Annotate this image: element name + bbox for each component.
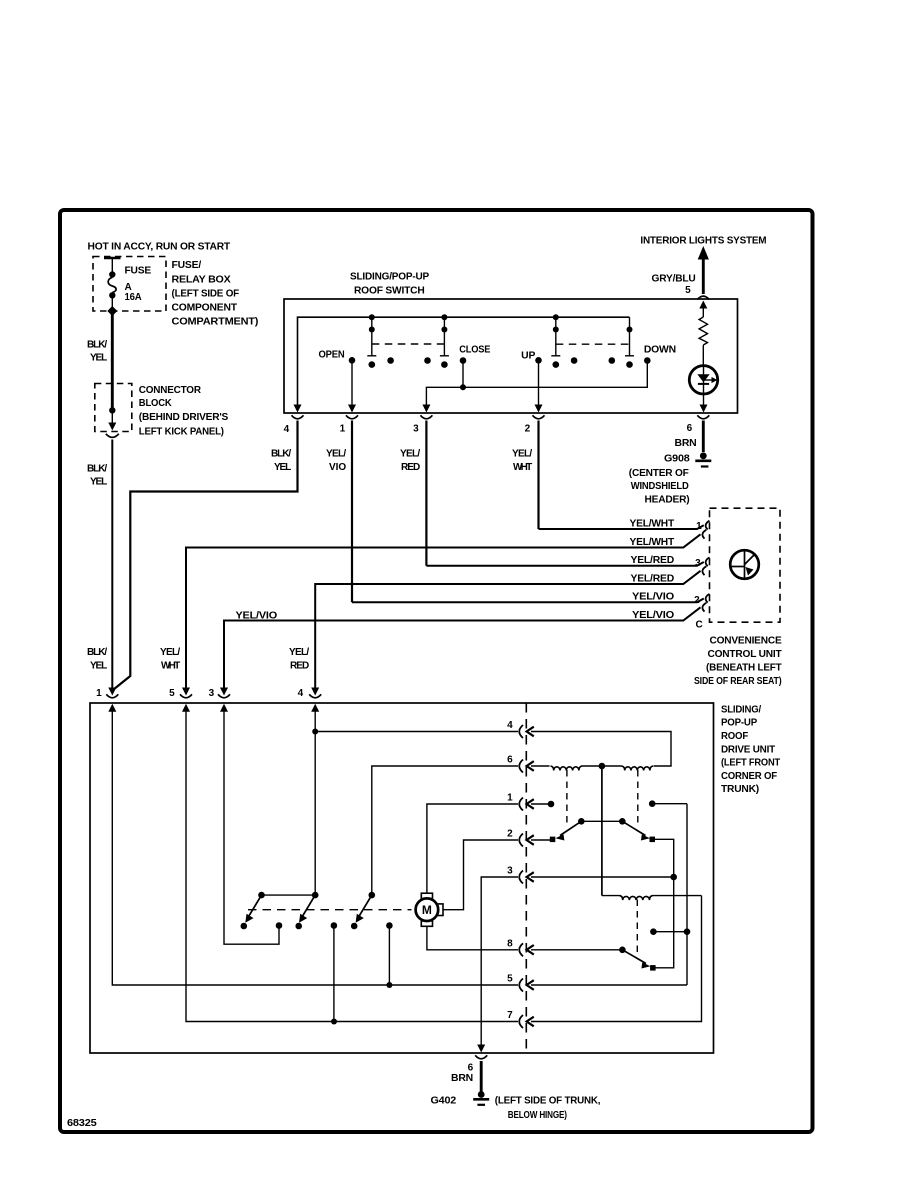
border frame — [60, 210, 813, 1132]
relay coil L1 — [531, 766, 602, 771]
svg-text:WHT: WHT — [513, 462, 532, 473]
svg-text:YEL/VIO: YEL/VIO — [632, 592, 674, 603]
wire BRN to ground — [480, 1061, 483, 1092]
fuse/relay box (dashed) — [93, 257, 166, 312]
svg-text:CORNER OF: CORNER OF — [721, 771, 777, 782]
svg-text:3: 3 — [413, 424, 419, 435]
svg-text:YEL/: YEL/ — [512, 449, 532, 460]
svg-text:BLK/: BLK/ — [87, 647, 107, 658]
arrow to interior lights system — [698, 246, 709, 260]
svg-text:YEL: YEL — [90, 661, 107, 672]
resistor — [699, 317, 707, 345]
connector pin 2 of switch — [533, 415, 545, 419]
wire BLK/YEL fuse to connector block — [111, 311, 114, 410]
svg-text:BRN: BRN — [675, 438, 697, 449]
label CONVENIENCE CONTROL UNIT (BENEATH LEFT SIDE OF REAR SEAT) — [694, 635, 782, 687]
connector symbol below block — [106, 434, 119, 438]
svg-text:DOWN: DOWN — [644, 345, 676, 356]
limit switch B — [295, 892, 337, 1022]
svg-text:YEL/VIO: YEL/VIO — [236, 611, 278, 622]
svg-text:3: 3 — [209, 688, 215, 699]
node DOWN contact — [644, 357, 651, 364]
svg-text:CLOSE: CLOSE — [459, 345, 490, 356]
wire YEL/WHT switch pin 2 down — [537, 421, 539, 530]
connector drive pin 1 — [96, 688, 118, 712]
drive unit box — [90, 703, 714, 1053]
LED indicator — [689, 366, 717, 394]
wire YEL/VIO switch pin 1 down — [351, 421, 353, 603]
connector pin 6 of switch — [697, 415, 709, 419]
label FUSE/RELAY BOX (LEFT SIDE OF COMPONENT COMPARTMENT) — [172, 260, 259, 328]
wire motor right to pin 2 line — [443, 840, 518, 910]
wire BRN pin 6 to ground — [702, 421, 705, 453]
relay contact K2 — [619, 947, 655, 971]
svg-text:RED: RED — [401, 462, 420, 473]
relay contact K1 — [550, 818, 655, 842]
svg-text:CONTROL UNIT: CONTROL UNIT — [708, 649, 782, 660]
svg-text:5: 5 — [507, 974, 513, 985]
svg-text:6: 6 — [687, 423, 693, 434]
svg-text:1: 1 — [340, 424, 346, 435]
wire motor top to pin 1 line — [427, 804, 518, 893]
connector bottom pin 6 — [475, 1055, 487, 1059]
svg-text:BLK/: BLK/ — [271, 449, 291, 460]
svg-text:BELOW HINGE): BELOW HINGE) — [508, 1110, 567, 1121]
svg-text:BRN: BRN — [451, 1073, 473, 1084]
svg-text:YEL/: YEL/ — [289, 647, 309, 658]
svg-text:SLIDING/: SLIDING/ — [721, 704, 761, 715]
junction — [331, 1019, 337, 1025]
connector drive pin 4 — [298, 688, 322, 712]
wire pin 3 line to bottom pin 6 — [481, 877, 518, 1045]
wire YEL/RED switch pin3 to control unit pin 3 — [426, 562, 703, 566]
svg-text:(CENTER OF: (CENTER OF — [629, 468, 689, 479]
wire YEL/WHT switch pin2 to control unit pin 1 — [539, 525, 704, 529]
svg-text:(BEHIND DRIVER'S: (BEHIND DRIVER'S — [139, 412, 229, 423]
svg-text:YEL: YEL — [90, 477, 107, 488]
connector arc pin 1 — [706, 521, 710, 530]
actuation dashes coil L2 — [637, 770, 639, 826]
wire coil L3 to pin 7 line — [531, 896, 702, 1022]
svg-text:2: 2 — [694, 595, 700, 606]
dead contacts group 2 — [571, 357, 578, 364]
junction — [386, 982, 392, 988]
limit switch C — [351, 892, 393, 985]
switch box — [284, 299, 738, 413]
svg-text:2: 2 — [507, 829, 513, 840]
node CLOSE contact — [460, 357, 467, 364]
wire pin 3 internal to limit switch A contact — [224, 711, 279, 944]
svg-text:YEL: YEL — [274, 462, 291, 473]
alternate contact stub lower — [650, 928, 690, 935]
connector block (dashed) — [95, 384, 132, 432]
svg-text:5: 5 — [169, 688, 175, 699]
wire pin 4 right loop — [531, 732, 671, 767]
wire BLK/YEL switch pin 4 to drive unit pin 1 — [114, 421, 298, 690]
svg-text:(LEFT SIDE OF TRUNK,: (LEFT SIDE OF TRUNK, — [495, 1096, 601, 1107]
wire pin 5 internal to pin 7 line — [186, 711, 518, 1022]
svg-text:3: 3 — [695, 558, 701, 569]
svg-text:BLK/: BLK/ — [87, 340, 107, 351]
svg-text:FUSE/: FUSE/ — [172, 260, 202, 271]
label (LEFT SIDE OF TRUNK, BELOW HINGE) — [495, 1096, 601, 1122]
actuation dashes coil L3 — [636, 900, 638, 954]
svg-text:8: 8 — [507, 938, 513, 949]
connector arc pin C — [702, 603, 706, 612]
internal connector dashed line — [525, 703, 527, 1053]
internal connector pin 6 — [507, 755, 534, 773]
label (CENTER OF WINDSHIELD HEADER) — [629, 468, 690, 506]
svg-text:RELAY BOX: RELAY BOX — [172, 274, 232, 285]
svg-text:4: 4 — [507, 720, 513, 731]
wire pin 1 internal to pin 5 line — [112, 711, 518, 985]
svg-text:INTERIOR LIGHTS SYSTEM: INTERIOR LIGHTS SYSTEM — [640, 235, 766, 246]
connector pin 4 of switch — [292, 415, 304, 419]
internal connector pin 7 — [507, 1010, 534, 1028]
switch contact 1 (OPEN side) — [367, 314, 376, 368]
node in connector block — [109, 407, 115, 413]
connector arc pin 3 — [706, 557, 710, 566]
solid state symbol U1 — [730, 550, 759, 579]
wire YEL/RED drive unit pin 4 to control unit — [315, 571, 700, 688]
svg-text:YEL: YEL — [90, 353, 107, 364]
svg-text:POP-UP: POP-UP — [721, 718, 758, 729]
svg-text:G402: G402 — [431, 1096, 457, 1107]
svg-text:5: 5 — [685, 285, 691, 296]
svg-text:G908: G908 — [664, 454, 690, 465]
ground G908 — [695, 452, 711, 466]
connector pin 5 — [697, 296, 709, 300]
connector arc — [702, 566, 706, 575]
wire pin 6 line to limit switch C — [372, 766, 518, 895]
svg-text:YEL/: YEL/ — [326, 449, 346, 460]
alternate contact stub upper — [649, 800, 687, 985]
svg-text:C: C — [696, 620, 703, 631]
svg-text:M: M — [422, 903, 432, 917]
dead contacts group 1 — [387, 357, 394, 364]
svg-text:HOT IN ACCY, RUN OR START: HOT IN ACCY, RUN OR START — [88, 242, 231, 253]
mechanical linkage to motor — [248, 909, 412, 911]
wire pin 2 to contact — [531, 839, 550, 841]
top bus wire from pin 4 — [298, 317, 630, 405]
wire pin 4 internal feed — [314, 711, 316, 895]
node UP contact to pin 2 — [535, 357, 542, 364]
relay coil L2 — [602, 766, 653, 771]
mechanical coupling open/close — [372, 343, 445, 345]
wire contact right to lower contact — [655, 839, 674, 968]
internal connector pin 1 — [507, 793, 534, 811]
wire pin 5 line right — [531, 984, 687, 986]
limit switch A — [241, 892, 316, 930]
connector pin 3 of switch — [420, 415, 432, 419]
connector drive pin 3 — [209, 688, 230, 712]
wire GRY/BLU pin 5 — [702, 259, 705, 295]
wire YEL/WHT drive unit pin 5 to control unit — [186, 534, 701, 688]
svg-text:3: 3 — [507, 866, 513, 877]
label CONNECTOR BLOCK (BEHIND DRIVER'S LEFT KICK PANEL) — [139, 385, 229, 437]
svg-text:(BENEATH LEFT: (BENEATH LEFT — [706, 663, 782, 674]
ground G402 — [473, 1091, 489, 1105]
svg-text:1: 1 — [696, 521, 702, 532]
node OPEN contact to pin 1 — [349, 357, 356, 364]
svg-text:BLK/: BLK/ — [87, 464, 107, 475]
svg-text:COMPONENT: COMPONENT — [172, 303, 237, 314]
switch contact 4 (DOWN side) — [625, 317, 634, 368]
switch contact 2 (CLOSE side) — [440, 314, 449, 368]
svg-text:YEL/VIO: YEL/VIO — [632, 610, 674, 621]
svg-text:RED: RED — [290, 661, 309, 672]
svg-text:WINDSHIELD: WINDSHIELD — [631, 481, 689, 492]
svg-text:VIO: VIO — [329, 462, 346, 473]
label SLIDING/POP-UP ROOF DRIVE UNIT (LEFT FRONT CORNER OF TRUNK) — [721, 704, 780, 795]
wire motor bottom to pin 8 line — [427, 927, 518, 950]
svg-text:YEL/RED: YEL/RED — [631, 555, 675, 566]
svg-text:OPEN: OPEN — [319, 350, 345, 361]
svg-text:ROOF: ROOF — [721, 731, 748, 742]
svg-text:SIDE OF REAR SEAT): SIDE OF REAR SEAT) — [694, 676, 782, 687]
svg-text:4: 4 — [284, 424, 290, 435]
svg-text:(LEFT SIDE OF: (LEFT SIDE OF — [172, 288, 240, 299]
svg-text:CONNECTOR: CONNECTOR — [139, 385, 202, 396]
internal connector pin 2 — [507, 829, 534, 847]
svg-text:1: 1 — [96, 688, 102, 699]
relay coil L3 — [602, 896, 702, 901]
lamp branch arrow in — [699, 301, 707, 309]
svg-text:YEL/RED: YEL/RED — [631, 574, 675, 585]
svg-text:6: 6 — [507, 755, 513, 766]
svg-text:68325: 68325 — [67, 1118, 97, 1129]
svg-text:SLIDING/POP-UP: SLIDING/POP-UP — [350, 272, 430, 283]
svg-text:4: 4 — [298, 688, 304, 699]
wire pin 1 stub — [531, 803, 550, 805]
svg-text:TRUNK): TRUNK) — [721, 784, 759, 795]
internal connector pin 4 — [507, 720, 534, 738]
mechanical coupling up/down — [556, 343, 630, 345]
svg-text:BLOCK: BLOCK — [139, 398, 173, 409]
svg-text:YEL/WHT: YEL/WHT — [630, 537, 675, 548]
switch contact 3 (UP side) — [551, 314, 560, 368]
connector arc — [702, 530, 706, 539]
svg-text:FUSE: FUSE — [125, 266, 152, 277]
svg-text:YEL/: YEL/ — [400, 449, 420, 460]
svg-text:CONVENIENCE: CONVENIENCE — [710, 635, 783, 646]
motor M — [416, 893, 443, 926]
actuation dashes coil L1 — [566, 770, 568, 826]
fuse A 16A — [104, 258, 152, 316]
internal connector pin 3 — [507, 866, 534, 884]
svg-text:(LEFT FRONT: (LEFT FRONT — [721, 758, 780, 769]
internal connector pin 8 — [507, 938, 534, 956]
wire CLOSE/DOWN to pin 3 — [426, 361, 647, 406]
wire BLK/YEL connector block to drive unit pin 1 — [111, 440, 113, 689]
connector arc pin 2 — [706, 594, 710, 603]
connector pin 1 of switch — [346, 415, 358, 419]
svg-text:GRY/BLU: GRY/BLU — [652, 274, 696, 285]
wire YEL/RED switch pin 3 down — [425, 421, 427, 566]
svg-text:LEFT KICK PANEL): LEFT KICK PANEL) — [139, 426, 224, 437]
svg-text:YEL/: YEL/ — [160, 647, 180, 658]
convenience control unit box (dashed) — [710, 508, 781, 622]
svg-text:DRIVE UNIT: DRIVE UNIT — [721, 744, 775, 755]
wire YEL/VIO drive unit pin 3 to control unit pin C — [224, 607, 701, 688]
svg-text:UP: UP — [521, 351, 536, 362]
svg-text:2: 2 — [525, 424, 531, 435]
junction coils — [599, 763, 606, 770]
connector drive pin 5 — [169, 688, 192, 712]
svg-text:HEADER): HEADER) — [645, 495, 690, 506]
junction pin 4 to connector line — [312, 729, 318, 735]
wire junction down to coil L3 — [601, 766, 603, 896]
svg-text:COMPARTMENT): COMPARTMENT) — [172, 317, 259, 328]
svg-text:6: 6 — [468, 1063, 474, 1074]
svg-text:YEL/WHT: YEL/WHT — [630, 519, 675, 530]
svg-text:ROOF SWITCH: ROOF SWITCH — [354, 286, 425, 297]
svg-text:16A: 16A — [125, 292, 142, 303]
wire pin 3 line right to contact chain — [531, 876, 674, 878]
svg-text:7: 7 — [507, 1010, 513, 1021]
internal connector pin 5 — [507, 974, 534, 992]
wire YEL/VIO switch pin1 to control unit pin 2 — [352, 599, 704, 603]
wire pin 8 to relay contact K2 — [531, 949, 622, 951]
svg-text:1: 1 — [507, 793, 513, 804]
svg-text:WHT: WHT — [161, 661, 180, 672]
